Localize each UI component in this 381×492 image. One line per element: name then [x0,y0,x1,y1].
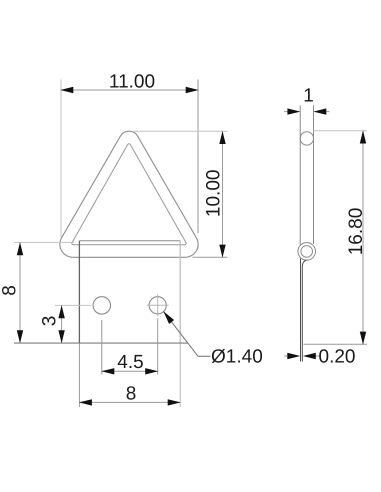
hole left [93,297,110,314]
hole right centerline horizontal [147,304,169,306]
dimension 10.00 line [222,131,224,257]
dimension 8 bottom arrow right [168,399,181,405]
dimension 8 bottom arrow left [79,399,92,405]
side view: plate strip left line [300,259,302,362]
dimension 8 bottom extension right [179,344,181,408]
svg-text:4.5: 4.5 [117,352,143,373]
svg-text:3: 3 [40,316,61,327]
hole right centerline vertical [157,294,159,316]
svg-text:8: 8 [0,285,21,296]
dimension 4.5 arrow right [145,368,158,374]
dimension 8 left arrow top [17,242,23,255]
dimension 11.00 arrow left [60,87,73,93]
dimension 11.00 arrow right [186,87,199,93]
dimension 11.00 extension line left [60,80,62,238]
dimension 4.5 arrow left [101,368,114,374]
side view: top wire circle [300,132,313,145]
front view: plate top edge [79,240,180,242]
side view: wire strip right line (also ext for dim 1) [313,106,315,245]
dimension 3 line [61,305,63,343]
svg-text:11.00: 11.00 [109,71,155,92]
dimension 4.5 line [102,370,158,372]
dimension 16.80 arrow top [360,131,366,144]
front view: triangle ring outer outline [60,131,198,257]
dimension 16.80 arrow bottom [360,332,366,345]
side view: loop inner [301,246,313,258]
dimension 8 left line [19,242,21,343]
dimension 3 arrow bottom [58,330,64,343]
svg-text:10.00: 10.00 [204,170,225,218]
dimension 3 arrow top [58,305,64,318]
svg-text:8: 8 [126,383,137,404]
leader line for hole diameter [163,311,210,356]
svg-text:0.20: 0.20 [318,347,355,368]
dimension 1 arrow left [284,111,297,113]
dimension 11.00 extension line right [197,80,199,234]
dimension 0.20 arrow right [307,355,320,357]
dimension 11.00 line [61,89,198,91]
side view: wire strip left line (also ext for dim 1) [299,106,301,246]
dimension 8 left arrow bottom [17,330,23,343]
side view: plate strip right line [302,260,306,362]
front view: plate bottom edge [14,342,188,344]
dimension 8 bottom line [79,401,180,403]
dimension 16.80 extension bottom [304,343,368,345]
dimension 16.80 line [362,131,364,344]
dimension 10.00 arrow bottom [219,245,225,258]
dimension 4.5 extension left [101,320,103,375]
front view: plate left edge [78,241,80,343]
dimension 10.00 extension top [134,130,228,132]
dimension 3 extension top [55,304,91,306]
dimension 4.5 extension right [157,319,159,375]
dimension 8 bottom extension left [78,344,80,408]
dimension 10.00 arrow top [219,131,225,144]
dimension 8 left extension top [14,241,74,243]
svg-text:Ø1.40: Ø1.40 [211,347,263,368]
dimension 10.00 extension bottom [193,256,228,258]
dimension 16.80 extension top [314,130,368,132]
leader arrowhead [163,311,174,324]
dimension 0.20 arrow left [284,355,297,357]
dimension 1 arrow right [317,111,330,113]
svg-text:16.80: 16.80 [346,208,367,256]
hole right [149,297,166,314]
side view: loop outer [298,243,316,261]
front view: plate right edge [179,241,181,343]
svg-text:1: 1 [303,85,314,106]
front view: triangle ring inner outline [72,144,186,245]
